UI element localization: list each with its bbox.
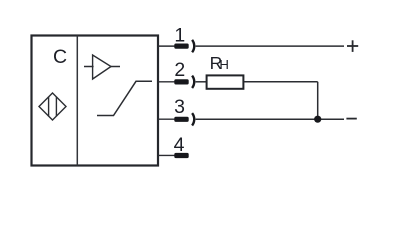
plus terminal	[347, 40, 358, 52]
wire pin 3 to minus	[196, 118, 344, 120]
pin 2 label	[174, 59, 185, 81]
pin 2 connector contact (pin)	[174, 79, 188, 84]
pin 1 label	[174, 25, 185, 47]
pin 4 connector contact (pin)	[174, 153, 188, 158]
label RH	[210, 53, 229, 73]
amplifier U1	[84, 55, 120, 79]
wire pin 2 to resistor	[196, 81, 207, 83]
pin 2 connector socket arc	[192, 76, 194, 88]
pin 1 connector contact (pin)	[174, 44, 188, 49]
pin 2 wire stub	[158, 81, 175, 83]
wire resistor to corner	[244, 81, 318, 83]
analog output ramp symbol	[97, 81, 152, 115]
pin 1 wire stub	[158, 45, 175, 47]
vertical wire down to pin 3 net	[317, 82, 319, 119]
pin 3 connector contact (pin)	[174, 117, 188, 122]
internal divider	[76, 36, 78, 166]
svg-text:4: 4	[174, 134, 185, 156]
label C	[53, 46, 67, 68]
minus terminal	[346, 118, 356, 120]
pin 3 label	[174, 96, 185, 118]
sensor enclosure box	[32, 36, 159, 166]
pin 3 connector socket arc	[192, 113, 194, 125]
pin 4 wire stub	[158, 154, 175, 156]
svg-text:H: H	[219, 57, 229, 72]
junction dot	[314, 116, 321, 123]
svg-text:3: 3	[174, 96, 185, 118]
pin 4 label	[174, 134, 185, 156]
svg-text:1: 1	[174, 25, 185, 47]
svg-text:2: 2	[174, 59, 185, 81]
wire pin 1 to plus	[196, 45, 344, 47]
svg-text:C: C	[53, 46, 67, 68]
capacitive sensor symbol (diamond with capacitor plates)	[39, 93, 66, 120]
resistor RH body	[207, 75, 244, 88]
pin 3 wire stub	[158, 118, 175, 120]
pin 1 connector socket arc	[192, 40, 194, 52]
